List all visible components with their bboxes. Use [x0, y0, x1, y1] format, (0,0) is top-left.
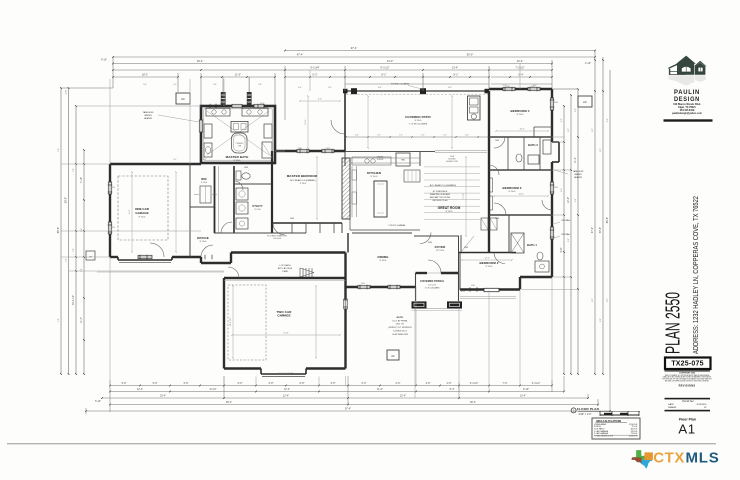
svg-text:HEATER: HEATER [574, 176, 583, 179]
svg-text:COVERED PATIO: COVERED PATIO [405, 115, 431, 119]
svg-text:STAIR: STAIR [282, 270, 288, 273]
svg-text:3050: 3050 [554, 187, 558, 189]
svg-text:2868: 2868 [495, 140, 499, 142]
svg-text:AREA CALCULATIONS: AREA CALCULATIONS [596, 420, 621, 423]
svg-text:9' CLG: 9' CLG [415, 120, 422, 122]
svg-text:3050: 3050 [111, 227, 115, 229]
svg-text:LOFT BATH: LOFT BATH [280, 264, 291, 267]
svg-text:8'-0″: 8'-0″ [600, 318, 602, 322]
svg-text:6'-6": 6'-6" [396, 382, 401, 385]
svg-text:7'-5″: 7'-5″ [421, 135, 425, 137]
svg-text:2'-8": 2'-8" [66, 90, 68, 95]
svg-text:5'-8": 5'-8" [331, 382, 336, 385]
svg-text:8'-0″: 8'-0″ [607, 118, 609, 122]
svg-text:GREAT ROOM: GREAT ROOM [438, 206, 461, 210]
svg-text:97'-4": 97'-4" [351, 46, 358, 50]
svg-text:9'-3 1/2": 9'-3 1/2" [380, 67, 389, 70]
svg-text:37'-4": 37'-4" [591, 227, 594, 233]
svg-text:3/16" = 1'-0": 3/16" = 1'-0" [579, 413, 592, 416]
svg-text:HEATER: HEATER [144, 117, 153, 120]
svg-text:DATE: DATE [668, 403, 674, 406]
svg-text:47'-4": 47'-4" [297, 53, 304, 57]
svg-text:(VERIFY) 9'-0" INTERIOR: (VERIFY) 9'-0" INTERIOR [388, 327, 412, 329]
svg-text:Permit Set: Permit Set [682, 400, 693, 403]
svg-text:SLIDER: SLIDER [377, 159, 384, 161]
svg-text:GLASS DOOR: GLASS DOOR [446, 160, 459, 163]
svg-text:12'-4": 12'-4" [284, 388, 290, 391]
svg-text:9' CLG: 9' CLG [509, 191, 516, 193]
svg-text:11'-0": 11'-0" [235, 74, 241, 77]
svg-text:8'-1": 8'-1" [382, 74, 387, 77]
svg-text:5'-4 1/2": 5'-4 1/2" [470, 383, 479, 385]
svg-text:12' CLG: 12' CLG [428, 285, 436, 287]
svg-text:13'-4": 13'-4" [519, 129, 524, 131]
svg-text:22'-4": 22'-4" [400, 395, 406, 398]
svg-text:11'-4": 11'-4" [129, 209, 131, 214]
svg-text:6'-6": 6'-6" [362, 382, 367, 385]
svg-text:TANKLESS: TANKLESS [573, 170, 584, 173]
svg-text:OFFICE: OFFICE [197, 236, 209, 240]
svg-text:7'-1″: 7'-1″ [443, 135, 447, 137]
svg-text:MLS: MLS [686, 450, 720, 467]
svg-text:9' CLG: 9' CLG [380, 260, 387, 262]
svg-text:DINING: DINING [377, 255, 389, 259]
svg-text:7'-6": 7'-6" [503, 382, 508, 385]
svg-text:6'-0″: 6'-0″ [503, 85, 507, 87]
svg-text:9' CLG: 9' CLG [300, 183, 307, 185]
svg-text:3050: 3050 [471, 285, 475, 287]
svg-text:BEDROOM 2: BEDROOM 2 [479, 261, 498, 265]
svg-text:5'-4": 5'-4" [519, 74, 524, 77]
svg-text:86'-8": 86'-8" [606, 217, 609, 223]
svg-text:13'-4": 13'-4" [452, 67, 458, 70]
svg-text:PAN: PAN [401, 159, 405, 162]
svg-text:8'-0″: 8'-0″ [600, 148, 602, 152]
svg-text:3'-1″: 3'-1″ [173, 159, 177, 161]
svg-text:ADDRESS: 1232 HADLEY LN, COPP: ADDRESS: 1232 HADLEY LN, COPPERAS COVE, … [691, 196, 700, 354]
svg-text:5'-8": 5'-8" [122, 382, 127, 385]
svg-text:3050: 3050 [554, 102, 558, 104]
svg-text:97'-4": 97'-4" [345, 408, 351, 411]
svg-text:8'-0″: 8'-0″ [568, 128, 570, 132]
svg-text:WATER: WATER [144, 114, 152, 117]
svg-text:T&G 6x48: T&G 6x48 [273, 238, 281, 240]
svg-text:2X6 WALL: 2X6 WALL [561, 233, 571, 236]
svg-text:16'-0": 16'-0" [461, 291, 466, 293]
svg-text:GARAGE: GARAGE [277, 314, 290, 318]
svg-text:9' CLG: 9' CLG [517, 114, 524, 116]
svg-text:9'-10": 9'-10" [523, 388, 529, 391]
svg-text:ACC BEAM CLG (FRAMED): ACC BEAM CLG (FRAMED) [430, 184, 457, 187]
svg-text:DOUBLE DOG: DOUBLE DOG [393, 331, 407, 333]
svg-text:TUB: TUB [238, 145, 241, 147]
svg-text:UTILITY: UTILITY [252, 204, 263, 208]
svg-text:5'-8": 5'-8" [238, 382, 243, 385]
svg-text:9' CLG: 9' CLG [234, 160, 241, 162]
svg-text:COPYRIGHT 2025: COPYRIGHT 2025 [679, 373, 695, 375]
svg-text:3050: 3050 [361, 283, 365, 285]
svg-text:8'-1": 8'-1" [454, 74, 459, 77]
svg-text:5'-6″: 5'-6″ [258, 84, 262, 86]
svg-text:5'-0″: 5'-0″ [328, 87, 332, 89]
svg-text:4'-10": 4'-10" [585, 62, 591, 65]
svg-text:3050: 3050 [111, 187, 115, 189]
svg-text:21'-8": 21'-8" [283, 333, 288, 335]
svg-text:4,056 S.F.: 4,056 S.F. [629, 436, 638, 438]
svg-text:BATH 2: BATH 2 [528, 143, 538, 147]
svg-text:23'-4": 23'-4" [160, 395, 166, 398]
svg-text:9' CLG: 9' CLG [446, 211, 453, 213]
svg-text:16'-8″: 16'-8″ [283, 279, 288, 281]
svg-text:18'-1": 18'-1" [142, 74, 148, 77]
svg-text:60" FIREPLACE: 60" FIREPLACE [433, 190, 448, 193]
svg-text:2X6 WALL: 2X6 WALL [561, 219, 571, 222]
svg-text:5'-4 1/2": 5'-4 1/2" [532, 383, 541, 385]
svg-text:5'-8″: 5'-8″ [73, 248, 75, 252]
svg-text:3050: 3050 [220, 103, 224, 105]
svg-text:paulindesign@yahoo.com: paulindesign@yahoo.com [672, 112, 702, 115]
svg-text:10'-0" AT PERIM.: 10'-0" AT PERIM. [392, 320, 408, 323]
svg-text:50'-0": 50'-0" [467, 53, 474, 57]
svg-text:STONE COLUMNS: STONE COLUMNS [391, 84, 410, 86]
svg-text:9' CLG: 9' CLG [255, 209, 261, 211]
svg-text:2850: 2850 [298, 148, 302, 150]
svg-text:CLAD WINDOWS: CLAD WINDOWS [392, 333, 409, 336]
svg-text:KITCHEN: KITCHEN [367, 171, 381, 175]
svg-text:8'-0″: 8'-0″ [575, 108, 577, 112]
svg-text:BEDROOM 3: BEDROOM 3 [502, 186, 521, 190]
svg-text:9' CLG: 9' CLG [139, 217, 146, 219]
svg-text:19'-4": 19'-4" [197, 59, 204, 63]
svg-text:5'-8″: 5'-8″ [58, 148, 60, 152]
svg-text:5'-8″: 5'-8″ [66, 258, 68, 262]
svg-text:7'-10": 7'-10" [80, 177, 83, 183]
svg-text:DRAWN: DRAWN [668, 406, 677, 409]
svg-text:2' FREEST: 2' FREEST [236, 143, 244, 145]
svg-text:8'-4″: 8'-4″ [378, 87, 382, 89]
svg-text:PAULIN: PAULIN [674, 89, 700, 96]
svg-text:FOYER: FOYER [435, 245, 447, 249]
svg-text:12'-4": 12'-4" [137, 388, 143, 391]
svg-text:2868: 2868 [290, 218, 294, 220]
svg-text:5'-6″: 5'-6″ [213, 84, 217, 86]
svg-text:13'-4": 13'-4" [518, 194, 523, 196]
svg-text:7 x 8 SS COLUMNS: 7 x 8 SS COLUMNS [409, 124, 428, 126]
svg-text:86'-8": 86'-8" [57, 227, 60, 233]
svg-text:11'-2": 11'-2" [574, 157, 577, 163]
svg-text:17'-8": 17'-8" [463, 193, 465, 198]
svg-text:2868: 2868 [464, 247, 468, 249]
svg-text:5'-10": 5'-10" [95, 401, 101, 403]
svg-text:BE USED OR REPRODUCED WITHOUT: BE USED OR REPRODUCED WITHOUT WRITTEN CO… [665, 380, 710, 382]
svg-text:REVISIONS: REVISIONS [679, 384, 696, 388]
svg-text:2850: 2850 [326, 148, 330, 150]
svg-text:12'-4": 12'-4" [517, 59, 524, 63]
svg-text:4'-0″: 4'-0″ [298, 87, 302, 89]
svg-text:GARAGE: GARAGE [135, 211, 148, 215]
svg-text:9' CLG: 9' CLG [486, 266, 493, 268]
svg-text:6'-2″: 6'-2″ [465, 135, 469, 137]
svg-text:5'-8″: 5'-8″ [81, 268, 83, 272]
svg-text:12'-0": 12'-0" [567, 197, 570, 203]
svg-text:11'-0": 11'-0" [377, 388, 383, 391]
svg-text:9' CLG: 9' CLG [201, 182, 208, 184]
svg-text:6'-8": 6'-8" [300, 382, 305, 385]
svg-text:11'-10": 11'-10" [209, 388, 216, 391]
svg-text:8'-0″: 8'-0″ [561, 188, 563, 192]
svg-text:12'-4": 12'-4" [484, 258, 489, 260]
svg-text:16'-0" x 8'-0" OHD: 16'-0" x 8'-0" OHD [278, 373, 294, 375]
svg-text:8'-4″: 8'-4″ [448, 87, 452, 89]
svg-text:8'-0″: 8'-0″ [592, 298, 594, 302]
svg-text:12' CLG: 12' CLG [436, 250, 444, 252]
svg-text:8'-0″: 8'-0″ [561, 118, 563, 122]
svg-text:CTX: CTX [653, 450, 685, 467]
svg-text:2868: 2868 [244, 167, 248, 169]
svg-text:7 x 8 COLUMNS: 7 x 8 COLUMNS [425, 288, 441, 290]
svg-text:18'-0 1/2": 18'-0 1/2" [230, 317, 232, 326]
svg-text:MASTER BEDROOM: MASTER BEDROOM [287, 174, 318, 178]
svg-text:3050: 3050 [260, 103, 264, 105]
svg-text:9' CLG: 9' CLG [200, 241, 207, 243]
svg-text:BEDROOM 4: BEDROOM 4 [510, 109, 529, 113]
svg-text:2' WOOD CHAIRAIL: 2' WOOD CHAIRAIL [388, 224, 405, 227]
svg-text:50'-8": 50'-8" [599, 227, 602, 233]
svg-text:6'-10": 6'-10" [101, 60, 107, 62]
svg-text:WRAPPED IN BOARD: WRAPPED IN BOARD [430, 193, 451, 196]
svg-text:2'-8": 2'-8" [447, 382, 452, 385]
svg-text:5'-8": 5'-8" [269, 382, 274, 385]
svg-text:6'-2": 6'-2" [313, 74, 318, 77]
svg-text:2868: 2868 [495, 218, 499, 220]
svg-text:8'-0″: 8'-0″ [575, 198, 577, 202]
svg-text:COVERED PORCH: COVERED PORCH [420, 280, 443, 283]
svg-text:NOTE:: NOTE: [397, 317, 404, 319]
svg-text:14'-0": 14'-0" [387, 59, 394, 63]
svg-text:13'-4": 13'-4" [520, 395, 526, 398]
svg-text:ACC BEAM CLG (FRAMED): ACC BEAM CLG (FRAMED) [290, 179, 316, 182]
svg-text:11'-4": 11'-4" [80, 317, 83, 323]
svg-text:A1: A1 [678, 422, 695, 437]
svg-text:36'-8": 36'-8" [65, 197, 68, 203]
svg-text:7'-5″: 7'-5″ [399, 135, 403, 137]
svg-text:9'-0″: 9'-0″ [143, 84, 147, 86]
svg-text:AC: AC [181, 97, 185, 101]
svg-text:8'-0″: 8'-0″ [607, 298, 609, 302]
svg-text:5'-8″: 5'-8″ [81, 228, 83, 232]
svg-text:BATH 1: BATH 1 [527, 243, 537, 247]
svg-text:3080: 3080 [428, 242, 432, 244]
svg-text:AND BATT W/ STONE: AND BATT W/ STONE [430, 196, 451, 199]
svg-text:CEIL. HT.: CEIL. HT. [396, 324, 405, 326]
svg-text:8'-0″: 8'-0″ [568, 238, 570, 242]
svg-text:5'-8″: 5'-8″ [58, 318, 60, 322]
svg-text:AC: AC [391, 354, 395, 358]
svg-text:12'-0": 12'-0" [305, 119, 307, 124]
svg-text:12'-4": 12'-4" [283, 395, 289, 398]
svg-text:5'-8": 5'-8" [184, 382, 189, 385]
svg-text:9'-0": 9'-0" [318, 99, 322, 101]
svg-text:5'-8": 5'-8" [153, 382, 158, 385]
svg-text:9' CLG: 9' CLG [371, 176, 378, 178]
svg-text:6'-4″: 6'-4″ [533, 85, 537, 87]
svg-text:5'-8": 5'-8" [560, 247, 563, 252]
svg-text:FLOOR PLAN: FLOOR PLAN [577, 407, 600, 411]
svg-text:PATTERN TILES: PATTERN TILES [432, 199, 448, 202]
svg-text:MASTER BATH: MASTER BATH [226, 155, 249, 159]
svg-text:38'-4": 38'-4" [470, 401, 476, 404]
svg-text:4'-8": 4'-8" [426, 382, 431, 385]
svg-text:8'-4": 8'-4" [450, 388, 455, 391]
svg-text:ATTIC ACCESS: ATTIC ACCESS [278, 267, 293, 270]
svg-text:5'-8″: 5'-8″ [73, 168, 75, 172]
svg-text:7'-1″: 7'-1″ [377, 135, 381, 137]
svg-text:TANKLESS: TANKLESS [143, 111, 154, 114]
svg-text:WIC: WIC [201, 177, 207, 181]
svg-text:6'-2″: 6'-2″ [355, 135, 359, 137]
svg-text:8/13/2025: 8/13/2025 [697, 404, 708, 406]
svg-text:PLAN 2550: PLAN 2550 [662, 292, 685, 354]
svg-text:6'-2″: 6'-2″ [203, 159, 207, 161]
svg-text:WATER: WATER [574, 173, 582, 176]
svg-text:48'-4": 48'-4" [226, 401, 232, 404]
svg-text:9'-0 3/4": 9'-0 3/4" [310, 67, 319, 70]
svg-text:TX25-075: TX25-075 [671, 361, 703, 368]
svg-text:AC: AC [583, 100, 587, 104]
svg-text:8'-0″: 8'-0″ [592, 128, 594, 132]
svg-text:23'-3 1/2": 23'-3 1/2" [72, 295, 75, 305]
svg-text:9'-1″: 9'-1″ [173, 84, 177, 86]
